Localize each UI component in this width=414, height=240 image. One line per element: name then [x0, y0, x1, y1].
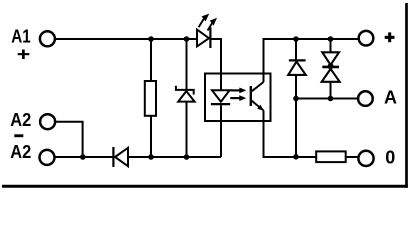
terminal 0 [358, 151, 373, 166]
terminal A [358, 91, 373, 106]
optocoupler light arrow 2 [230, 95, 246, 101]
node zener bottom [184, 154, 190, 160]
wire zener branch bottom [186, 102, 188, 157]
terminal A2 lower [40, 150, 55, 165]
resistor R1 [145, 81, 156, 116]
node TVS at A net [328, 96, 334, 102]
LED indicator diode [197, 27, 210, 48]
terminal A2 upper [40, 114, 55, 129]
zener diode ZD1 [176, 86, 195, 102]
node TVS top [328, 36, 334, 42]
node D2 at A net [293, 96, 299, 102]
svg-text:A2: A2 [10, 110, 31, 130]
wire R2 to 0 terminal [346, 156, 359, 158]
phototransistor Q1 [251, 82, 264, 111]
frame right border [405, 3, 408, 188]
wire emitter down and right to R2 [264, 111, 317, 158]
terminal + [359, 31, 374, 46]
svg-text:A1: A1 [11, 27, 31, 47]
label + (right) [385, 32, 395, 42]
terminal A1 [40, 31, 55, 46]
wire A net horizontal [296, 98, 358, 100]
wire A1 to LED anode [56, 38, 197, 40]
node D2 top [293, 36, 299, 42]
wire collector up and right to + terminal [264, 39, 360, 82]
node emitter at 0 net [293, 154, 299, 160]
label + (left) [18, 50, 30, 60]
optocoupler LED [211, 90, 230, 104]
node R1 bottom [148, 154, 154, 160]
wire LED cathode to corner and down into optocoupler [212, 39, 222, 90]
wire D1 to opto corner [128, 156, 221, 158]
node R1 top [148, 36, 154, 42]
frame bottom border [2, 185, 408, 188]
wire TVS branch bottom [330, 82, 332, 99]
optocoupler light arrow 1 [230, 88, 246, 94]
resistor R2 [316, 151, 346, 162]
wire TVS branch top [330, 39, 332, 52]
label - (minus) [14, 134, 23, 137]
LED emission arrow 2 [208, 18, 217, 31]
wire A2 upper jog down [55, 122, 83, 157]
wire D2 branch bottom through to 0 net [295, 76, 297, 157]
wire resistor R1 branch top [150, 39, 152, 81]
svg-text:0: 0 [385, 148, 395, 168]
diode D2 [288, 60, 306, 75]
wire opto LED cathode down to bottom-left net [220, 105, 222, 157]
LED emission arrow 1 [199, 14, 210, 28]
wire zener branch top [186, 39, 188, 90]
optocoupler box U1 [205, 74, 271, 122]
TVS suppressor diode [322, 52, 340, 82]
wire resistor R1 branch bottom [150, 116, 152, 157]
svg-text:A: A [384, 88, 397, 108]
wire D2 branch top [295, 39, 297, 60]
wire bottom-left net A2 to D1 [55, 156, 112, 158]
node A2 jog [80, 154, 86, 160]
node zener top [184, 36, 190, 42]
svg-text:A2: A2 [10, 142, 31, 162]
diode D1 [113, 147, 128, 167]
